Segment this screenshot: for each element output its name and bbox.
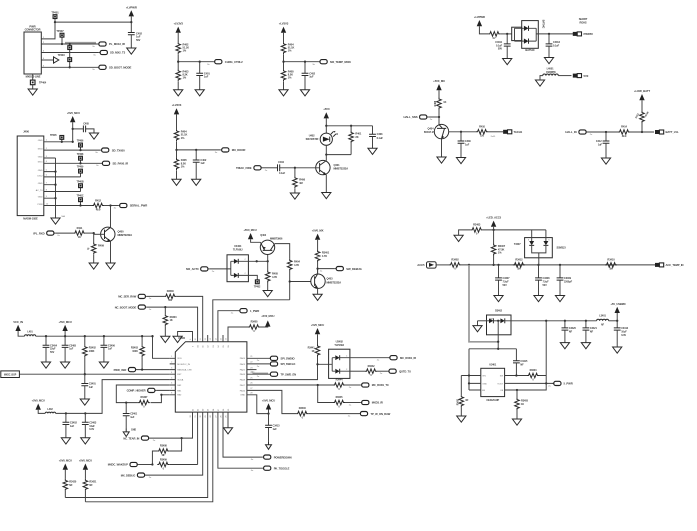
capacitor C3408 bbox=[535, 265, 550, 296]
svg-text:NF: NF bbox=[69, 484, 73, 487]
tag TP_W_ON_RAW bbox=[348, 412, 391, 418]
resistor R3442 bbox=[365, 365, 377, 377]
svg-text:MC_RXD1_TX: MC_RXD1_TX bbox=[372, 383, 389, 387]
wire J401 pin3 bbox=[41, 52, 99, 54]
tag NC_TEAR_IN bbox=[123, 436, 156, 442]
ground bbox=[161, 326, 170, 342]
wire node bbox=[438, 110, 440, 125]
svg-text:NC_TEAR_IN: NC_TEAR_IN bbox=[123, 436, 139, 440]
svg-text:+LVPWR: +LVPWR bbox=[126, 5, 137, 9]
VCC_IN power flag bbox=[13, 320, 24, 336]
tag SD_MX2_T3 bbox=[93, 50, 125, 56]
svg-text:+5V0_MCU: +5V0_MCU bbox=[311, 323, 324, 327]
rail 5V_USBMX wire bbox=[497, 320, 597, 343]
svg-text:QXTD_TX: QXTD_TX bbox=[399, 369, 411, 373]
svg-text:2200pF: 2200pF bbox=[564, 281, 573, 284]
svg-text:TP_W_ON_RAW: TP_W_ON_RAW bbox=[371, 412, 391, 416]
ground bbox=[313, 294, 322, 300]
ground bbox=[581, 343, 590, 349]
svg-text:R3430: R3430 bbox=[167, 290, 175, 293]
svg-text:50V: 50V bbox=[50, 351, 55, 354]
power flag +5V0_MX bbox=[312, 229, 324, 250]
jumper bbox=[655, 130, 664, 134]
ground bbox=[263, 283, 272, 297]
ground bbox=[300, 90, 309, 96]
power flag +LVPWR bbox=[126, 5, 137, 32]
svg-text:Q400: Q400 bbox=[118, 230, 125, 234]
power flag +5V0_MCU on rail bbox=[59, 320, 72, 336]
transistor Q400 MMBT2222A bbox=[94, 206, 133, 242]
svg-text:C405: C405 bbox=[83, 123, 89, 126]
svg-text:GND: GND bbox=[38, 197, 43, 199]
wire MCU bottom pin2 bbox=[197, 412, 199, 464]
svg-text:L3401: L3401 bbox=[599, 314, 606, 317]
tag MC_RXD1_TX bbox=[345, 383, 389, 389]
svg-text:R3446: R3446 bbox=[299, 407, 307, 410]
wire to output bbox=[282, 61, 318, 63]
svg-text:EN: EN bbox=[482, 390, 485, 392]
wire MCU right pin7 bbox=[253, 390, 297, 413]
svg-text:R3407: R3407 bbox=[140, 396, 148, 399]
svg-text:R414: R414 bbox=[621, 125, 627, 129]
tag POWERDOWN bbox=[251, 455, 292, 461]
capacitor C412 bbox=[596, 132, 609, 158]
capacitor C3412 bbox=[614, 321, 629, 347]
resistor R413 bbox=[635, 111, 650, 123]
ground bus wire bbox=[44, 158, 57, 218]
svg-text:GND: GND bbox=[38, 183, 43, 185]
wire MCU top pin2 bbox=[147, 307, 198, 342]
svg-text:MOSI/DC_IN: MOSI/DC_IN bbox=[177, 364, 190, 366]
svg-text:GND: GND bbox=[38, 170, 43, 172]
svg-text:GND: GND bbox=[240, 395, 245, 397]
svg-text:MMBT2222A: MMBT2222A bbox=[327, 280, 342, 284]
svg-text:VDD: VDD bbox=[177, 358, 182, 360]
junction bbox=[605, 131, 607, 133]
svg-text:+5V0_MCU: +5V0_MCU bbox=[67, 111, 80, 115]
capacitor C3401 bbox=[81, 374, 96, 399]
wire J400 pin1 bbox=[44, 128, 74, 143]
svg-text:1uF: 1uF bbox=[70, 425, 75, 428]
resistor R401 bbox=[488, 32, 500, 41]
transistor Q403 MMBT2222A bbox=[311, 269, 341, 295]
svg-text:AC_T0: AC_T0 bbox=[36, 189, 44, 192]
resistor R3421 bbox=[83, 470, 97, 502]
ground bbox=[613, 347, 622, 353]
svg-text:MXDC_BOP: MXDC_BOP bbox=[4, 375, 17, 377]
test point TP409 bbox=[77, 166, 84, 177]
svg-text:U3402: U3402 bbox=[336, 339, 344, 343]
label TACH bbox=[491, 130, 523, 138]
tag SPI_SWCLK bbox=[253, 362, 296, 368]
wire bbox=[177, 54, 179, 61]
resistor R404 bbox=[174, 129, 187, 141]
svg-text:RST: RST bbox=[177, 374, 182, 376]
tag PWR_VER bbox=[114, 368, 170, 374]
svg-text:HALL_IN: HALL_IN bbox=[565, 130, 576, 134]
svg-text:SPI_SWDIO: SPI_SWDIO bbox=[281, 357, 295, 361]
tag SERIAL_PWR bbox=[114, 203, 148, 209]
svg-text:COMP_HIGHER: COMP_HIGHER bbox=[127, 389, 146, 393]
inductor L4001 bbox=[543, 67, 558, 76]
svg-text:PA22: PA22 bbox=[240, 369, 246, 372]
wire to power bbox=[609, 320, 619, 322]
svg-text:100K: 100K bbox=[89, 350, 95, 353]
dual diode D401 BAT54C bbox=[512, 20, 545, 52]
svg-text:MXD3_IR: MXD3_IR bbox=[372, 401, 383, 405]
svg-text:R3407: R3407 bbox=[498, 244, 506, 248]
wire emitter bbox=[106, 241, 115, 269]
tag IPL_RXD input bbox=[33, 231, 73, 237]
wire MCU right pin5 to opto bbox=[253, 364, 318, 379]
boxed tag MXDC_BOP bbox=[1, 371, 170, 378]
ground bbox=[81, 438, 90, 444]
svg-text:R3405: R3405 bbox=[521, 400, 529, 403]
resistor R401b bbox=[349, 126, 362, 155]
svg-text:6.3V: 6.3V bbox=[89, 428, 94, 431]
svg-text:4.7K: 4.7K bbox=[294, 263, 299, 267]
ground bbox=[41, 362, 50, 368]
wire emitter bbox=[437, 139, 446, 163]
tag MX_WAKEUP bbox=[108, 462, 153, 466]
capacitor C3404 bbox=[43, 336, 58, 362]
tag MX_TEMP_MON bbox=[312, 60, 350, 66]
ground bbox=[51, 215, 65, 224]
wire long bbox=[308, 413, 359, 415]
resistor R3404m bbox=[163, 306, 177, 326]
wire MCU bottom pin5 bbox=[85, 412, 212, 502]
resistor R410g bbox=[476, 124, 488, 137]
svg-text:SW_DEBUG: SW_DEBUG bbox=[346, 267, 361, 271]
resistor R405 bbox=[174, 158, 187, 170]
tag CHRG_CTRL2 bbox=[207, 60, 243, 66]
svg-text:MX_ACT0: MX_ACT0 bbox=[186, 267, 199, 271]
resistor R3403m bbox=[131, 336, 144, 369]
power flag +5V0_MCU bbox=[261, 314, 274, 326]
svg-text:VCC_IN: VCC_IN bbox=[13, 320, 23, 324]
svg-text:GND: GND bbox=[131, 429, 136, 432]
svg-text:MX_TEMP_MON: MX_TEMP_MON bbox=[330, 60, 351, 64]
svg-text:D3402: D3402 bbox=[495, 310, 503, 313]
opto U3404 TLP166 bbox=[227, 244, 248, 282]
svg-text:HALL_SNS: HALL_SNS bbox=[404, 115, 418, 119]
ground bbox=[555, 296, 564, 302]
svg-text:CE3120-MP: CE3120-MP bbox=[486, 399, 499, 402]
wire to tag bbox=[104, 204, 118, 206]
svg-text:+5V0_MCU: +5V0_MCU bbox=[261, 314, 274, 318]
svg-text:50V: 50V bbox=[543, 284, 548, 287]
tag TP_SWD_EN bbox=[253, 372, 269, 374]
svg-text:MXDC3-LINE: MXDC3-LINE bbox=[26, 75, 41, 79]
wire to power bbox=[260, 326, 268, 328]
svg-text:1K: 1K bbox=[312, 350, 315, 353]
ground bbox=[473, 321, 482, 332]
svg-text:PL_MX13_IR: PL_MX13_IR bbox=[109, 42, 125, 46]
svg-text:R411: R411 bbox=[77, 226, 83, 230]
power flag +LV3V3 (B2) bbox=[279, 22, 289, 43]
svg-text:100K: 100K bbox=[132, 350, 138, 353]
svg-text:R3409: R3409 bbox=[160, 458, 168, 461]
svg-text:R405: R405 bbox=[272, 272, 278, 276]
ground bbox=[172, 170, 181, 185]
svg-text:Q401: Q401 bbox=[334, 163, 341, 167]
ground bbox=[457, 407, 466, 422]
tag MX_ACT0 input bbox=[186, 267, 227, 273]
svg-text:R3445: R3445 bbox=[336, 396, 344, 399]
capacitor C3403 bbox=[82, 413, 97, 437]
svg-text:R409: R409 bbox=[98, 244, 104, 248]
svg-text:MC_RXD1_IR: MC_RXD1_IR bbox=[400, 356, 416, 360]
inductor L401 bbox=[25, 330, 36, 336]
svg-text:1uF: 1uF bbox=[598, 144, 603, 147]
svg-text:SIR-56ST3F: SIR-56ST3F bbox=[306, 138, 319, 141]
wire J401 pin1 to +LVPWR rail bbox=[41, 22, 131, 39]
svg-text:TRIAC_FIRE: TRIAC_FIRE bbox=[236, 166, 252, 170]
regulator U3401 bbox=[481, 363, 505, 402]
jumper bbox=[655, 263, 664, 267]
wire MCU right pin8 bbox=[253, 395, 270, 415]
wire J400 pin10 bbox=[44, 205, 92, 207]
test point TP401 bbox=[51, 10, 59, 23]
svg-text:0.1uF: 0.1uF bbox=[279, 172, 286, 175]
power flag +LED_ACC5 bbox=[486, 216, 501, 244]
power flag +5V0_MCU bbox=[243, 228, 260, 242]
test point TP408 bbox=[77, 153, 84, 165]
svg-text:+5V0_MCU: +5V0_MCU bbox=[32, 399, 45, 403]
tag COMP_HIGHER bbox=[127, 388, 157, 392]
test point TP40B bbox=[77, 180, 84, 191]
svg-text:+5V0_MCU: +5V0_MCU bbox=[79, 459, 92, 463]
wire LED cathode bbox=[325, 145, 351, 155]
wire MCU top pin4 stub bbox=[207, 335, 209, 342]
capacitor C401 bbox=[196, 62, 210, 90]
capacitor C3415 bbox=[513, 360, 528, 376]
resistor R403 bbox=[176, 62, 189, 82]
svg-text:TP406: TP406 bbox=[77, 140, 84, 143]
svg-text:Q402: Q402 bbox=[260, 234, 266, 237]
wire J400 pin4 bbox=[44, 162, 101, 164]
svg-text:1K: 1K bbox=[170, 319, 173, 322]
svg-text:MX_DOOR: MX_DOOR bbox=[232, 148, 246, 152]
svg-text:+5V0_MCU: +5V0_MCU bbox=[243, 228, 256, 232]
svg-text:TP40B: TP40B bbox=[77, 180, 84, 183]
svg-text:TP407: TP407 bbox=[56, 29, 64, 33]
tag MX_DOOR bbox=[215, 148, 246, 154]
IR LED U402 SIR-56ST3F bbox=[306, 126, 338, 145]
capacitor C3406 bbox=[101, 336, 116, 362]
tag QXTD_TX bbox=[377, 369, 411, 375]
svg-text:PA18: PA18 bbox=[240, 379, 246, 382]
svg-text:50V: 50V bbox=[503, 284, 508, 287]
wire bbox=[493, 256, 495, 265]
wire bbox=[500, 33, 511, 35]
capacitor C3421 bbox=[583, 321, 598, 343]
wires U3401 left pins bbox=[461, 374, 481, 390]
power flag +5V0_MCU right bbox=[262, 398, 275, 425]
svg-text:R3403: R3403 bbox=[473, 223, 481, 227]
svg-text:+5V0_MCU: +5V0_MCU bbox=[262, 398, 275, 402]
wire MCU top pin1 to ground bbox=[178, 332, 193, 342]
wire node bbox=[316, 357, 328, 366]
resistor R3420 bbox=[63, 470, 77, 498]
tag 1_PWR bbox=[231, 309, 259, 315]
ground bbox=[503, 59, 512, 65]
wire MCU bottom pin4 bbox=[65, 412, 207, 497]
ground bbox=[368, 148, 377, 154]
svg-text:MMBT2222A: MMBT2222A bbox=[334, 167, 349, 171]
wire to output bbox=[177, 61, 213, 63]
wire node to Q403 base bbox=[289, 271, 311, 300]
resistor R3445 bbox=[333, 396, 345, 408]
wires U3401 right pins bbox=[505, 374, 554, 391]
svg-text:L401: L401 bbox=[27, 330, 33, 333]
svg-text:TLP166J: TLP166J bbox=[334, 344, 344, 347]
capacitor C403 bbox=[369, 126, 383, 148]
main rail wire bbox=[461, 264, 655, 266]
resistor R3441 bbox=[308, 345, 320, 357]
ground bbox=[601, 158, 610, 164]
svg-text:TP40C: TP40C bbox=[77, 194, 84, 197]
svg-text:ROHS: ROHS bbox=[579, 20, 586, 24]
capacitor C3409m bbox=[123, 403, 138, 429]
svg-text:2K: 2K bbox=[355, 135, 358, 139]
wire MCU bottom pin6 bbox=[218, 412, 262, 468]
svg-text:R412: R412 bbox=[95, 199, 101, 203]
svg-text:1M: 1M bbox=[517, 268, 520, 271]
svg-text:4.7K: 4.7K bbox=[272, 275, 277, 279]
svg-text:TP409: TP409 bbox=[77, 166, 84, 169]
svg-text:FERRITE: FERRITE bbox=[546, 71, 556, 74]
wire base bbox=[85, 232, 94, 234]
svg-text:47.5K: 47.5K bbox=[498, 247, 505, 251]
net highlight pin2 bbox=[65, 42, 96, 44]
resistor R414 bbox=[618, 125, 630, 138]
svg-text:C404: C404 bbox=[278, 160, 284, 164]
ground bbox=[279, 82, 288, 96]
power flag +5V0 bbox=[323, 107, 330, 126]
tag NC_BOOT_MODE bbox=[115, 305, 152, 311]
svg-text:R401: R401 bbox=[355, 132, 361, 136]
power flag +5V0_MX bbox=[433, 79, 445, 98]
wire gate rail bbox=[483, 229, 546, 231]
svg-text:+5V0: +5V0 bbox=[323, 107, 330, 111]
power flag +LV3V3 (B1) bbox=[174, 22, 184, 43]
svg-text:PA24: PA24 bbox=[240, 357, 246, 360]
resistor R405c bbox=[265, 261, 278, 282]
test point chain TP402/TP403 bbox=[58, 43, 72, 69]
svg-text:R408: R408 bbox=[434, 100, 437, 106]
ground bbox=[512, 410, 521, 425]
test point TP405 bbox=[50, 134, 64, 142]
diode pack D3402 bbox=[478, 310, 547, 342]
svg-text:TP404: TP404 bbox=[39, 81, 47, 85]
svg-text:J400: J400 bbox=[23, 130, 29, 134]
svg-text:1uF: 1uF bbox=[130, 416, 135, 419]
resistor R404 bbox=[281, 42, 294, 54]
wire MCU top pin3 bbox=[176, 296, 203, 341]
gnd1 arrow bbox=[123, 429, 136, 437]
MCU U3400 bbox=[175, 337, 247, 412]
net highlight vertical bbox=[469, 265, 499, 342]
svg-text:1uF: 1uF bbox=[69, 348, 74, 351]
svg-text:TP405: TP405 bbox=[50, 134, 57, 137]
svg-text:+5V0_MCU: +5V0_MCU bbox=[59, 320, 72, 324]
tag MXD3_IR bbox=[345, 400, 383, 406]
ground bbox=[89, 133, 98, 139]
ground bbox=[80, 399, 89, 405]
svg-text:GND: GND bbox=[482, 383, 487, 385]
capacitor C3407 bbox=[495, 265, 510, 296]
tag SW_DEBUG bbox=[318, 267, 362, 273]
tag SPI_SWDIO bbox=[253, 356, 295, 362]
jumper bbox=[573, 74, 582, 78]
wire emitter bbox=[322, 175, 331, 199]
power flag +5V0_MCU bbox=[67, 111, 80, 142]
svg-text:1uF: 1uF bbox=[108, 348, 113, 351]
svg-text:BATT_LVL: BATT_LVL bbox=[666, 130, 679, 134]
svg-text:POWERDOWN: POWERDOWN bbox=[274, 455, 292, 459]
resistor R3405m bbox=[248, 321, 260, 333]
svg-text:R3405: R3405 bbox=[251, 321, 259, 324]
svg-text:DIG2: DIG2 bbox=[37, 175, 43, 177]
capacitor C3402 bbox=[63, 413, 78, 437]
svg-text:49.9: 49.9 bbox=[622, 135, 627, 138]
resistor R3407 bbox=[491, 244, 505, 256]
resistor R411 bbox=[73, 226, 85, 239]
svg-text:TP_SWD_EN: TP_SWD_EN bbox=[281, 372, 297, 376]
svg-text:PWR5V: PWR5V bbox=[584, 32, 594, 36]
transistor Q404 BC817 bbox=[424, 124, 449, 138]
svg-text:50V: 50V bbox=[498, 48, 503, 51]
opto U3402 TLP166 bbox=[329, 339, 350, 378]
svg-text:GND: GND bbox=[38, 140, 43, 142]
wire J400 pin2 bbox=[44, 149, 100, 151]
wire diode output bbox=[538, 33, 573, 35]
svg-text:MA: MA bbox=[62, 215, 66, 218]
svg-text:PWR_VER: PWR_VER bbox=[114, 368, 127, 372]
svg-text:50V: 50V bbox=[136, 38, 141, 42]
ground bbox=[535, 76, 544, 87]
svg-text:+5V0_MCU: +5V0_MCU bbox=[59, 459, 72, 463]
jumper SHORT/ROHS bbox=[573, 17, 588, 36]
svg-text:ACC_TEMP_IN: ACC_TEMP_IN bbox=[666, 263, 684, 267]
tag MC_SER_RAW bbox=[118, 294, 164, 300]
svg-text:L4001: L4001 bbox=[547, 67, 555, 71]
resistor R405 bbox=[281, 62, 294, 82]
resistor R3402m bbox=[83, 336, 97, 374]
svg-text:1M: 1M bbox=[299, 181, 302, 185]
wire upper out bbox=[350, 357, 389, 359]
svg-text:R3408: R3408 bbox=[160, 445, 168, 448]
capacitor C3413 bbox=[265, 424, 280, 441]
svg-text:5_PWR: 5_PWR bbox=[564, 382, 573, 386]
svg-text:TP403: TP403 bbox=[58, 54, 66, 57]
power flag +5V0_MCU b1 bbox=[59, 459, 72, 470]
resistor R3444 bbox=[333, 379, 345, 391]
tag SD_BOOT_MODE bbox=[92, 65, 131, 71]
svg-text:+5V_USBMX: +5V_USBMX bbox=[610, 302, 625, 306]
svg-text:R3442: R3442 bbox=[368, 365, 376, 368]
svg-text:ACC5: ACC5 bbox=[417, 263, 425, 267]
power flag +LVPWR bbox=[474, 15, 488, 34]
ground bbox=[534, 296, 543, 302]
wire bbox=[558, 75, 571, 77]
svg-text:1_PWR: 1_PWR bbox=[250, 309, 259, 313]
tag 5_PWR bbox=[548, 381, 572, 387]
jumper bbox=[503, 130, 512, 134]
resistor R3401 bbox=[315, 250, 329, 262]
wire VIN loop bbox=[469, 342, 516, 390]
